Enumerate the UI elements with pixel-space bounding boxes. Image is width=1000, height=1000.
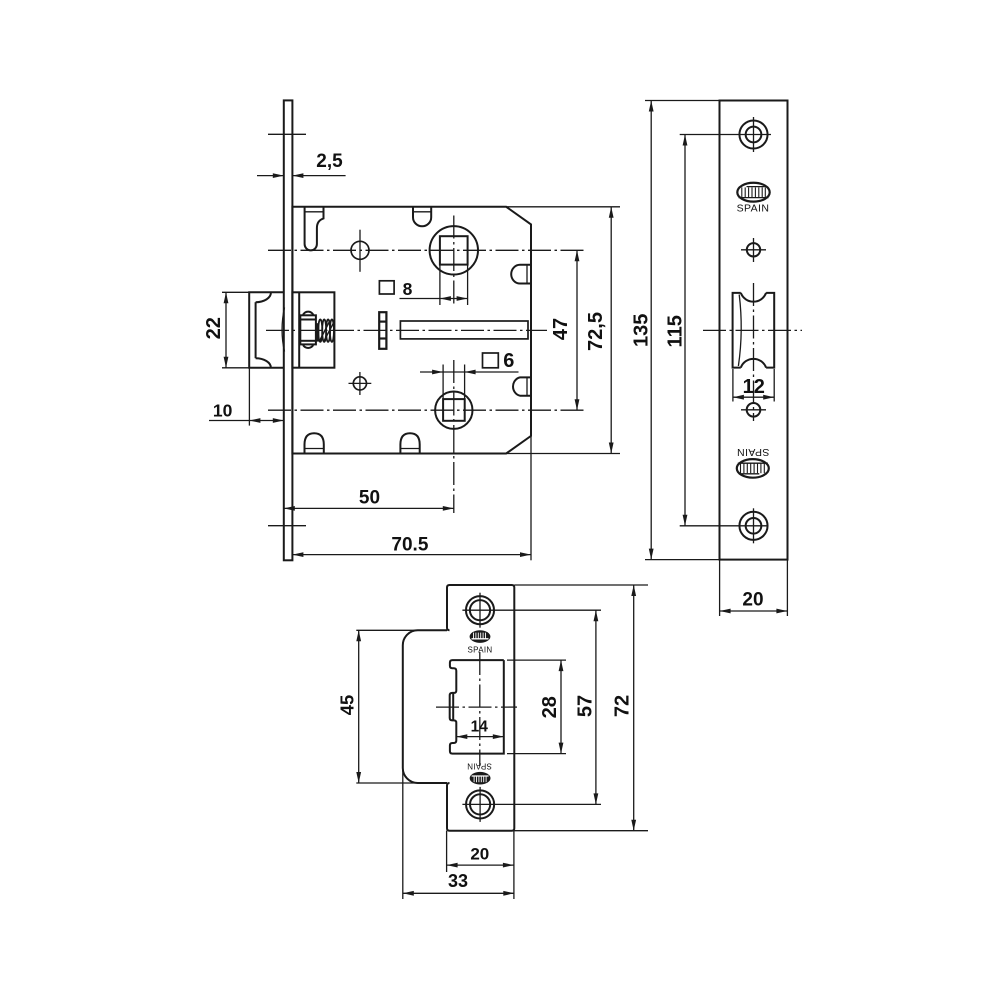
latch axis centerline (left view)	[266, 329, 547, 331]
spring retainer flanged piece	[300, 312, 316, 348]
bottom tab 1	[305, 433, 324, 453]
svg-text:2,5: 2,5	[316, 151, 343, 172]
latch axis centerline (right view)	[703, 329, 802, 331]
dimension 135 faceplate height	[631, 101, 720, 560]
small hole lower-left with crosshair	[349, 372, 372, 395]
spring seat dark tip	[316, 323, 319, 341]
strike bottom screw hole	[466, 787, 494, 822]
latch bolt bevel arc behind faceplate	[282, 308, 284, 352]
vertical centerline upper follower	[453, 216, 455, 308]
dimension 2,5 faceplate thickness	[257, 151, 346, 178]
dimension 50 backset	[284, 430, 454, 514]
dimension 14	[456, 719, 504, 740]
svg-text:SPAIN: SPAIN	[737, 446, 770, 458]
strike wing curved flange	[403, 630, 447, 783]
faceplate bar (side view, 2.5 thick)	[284, 100, 293, 560]
svg-text:6: 6	[503, 350, 514, 372]
tick mark on faceplate at bottom screw height	[268, 525, 306, 527]
svg-text:14: 14	[471, 719, 489, 736]
tick mark on faceplate at top screw height	[268, 133, 306, 135]
svg-text:SPAIN: SPAIN	[737, 202, 770, 214]
svg-text:20: 20	[742, 590, 763, 611]
strike latch cutout with lip	[450, 660, 504, 754]
strike amig logo top (solid)	[470, 630, 491, 643]
strike cutout horizontal centerline	[436, 706, 517, 708]
centerline through lower follower	[268, 409, 585, 411]
dimension 20 strike plate width	[447, 831, 514, 899]
svg-text:57: 57	[575, 695, 597, 717]
small hole upper-left with crosshair	[351, 230, 369, 272]
strike cutout vertical centerline	[479, 652, 481, 766]
latch housing inside body	[292, 292, 334, 367]
svg-text:12: 12	[743, 376, 765, 398]
svg-text:20: 20	[470, 845, 489, 864]
top screw hole	[739, 117, 767, 152]
right edge tab lower	[513, 377, 531, 395]
dimension 57 screw spacing strike	[462, 610, 601, 804]
strike plate outline	[447, 585, 514, 831]
lower follower: circle with 6mm square	[435, 392, 472, 429]
dimension 6 square follower	[420, 350, 519, 375]
latch head (bolt) left of faceplate	[249, 292, 284, 368]
dimension 10	[209, 368, 284, 426]
lock body outline with chamfered right corners	[292, 207, 531, 561]
dimension 47 follower spacing	[550, 250, 579, 410]
svg-text:70.5: 70.5	[391, 535, 428, 556]
amig logo (bottom, upside down outline)	[737, 459, 769, 478]
dimension 8 square follower	[379, 279, 467, 301]
bottom tab 2	[400, 433, 419, 453]
dimension 115 screw spacing	[664, 135, 771, 526]
svg-text:50: 50	[359, 487, 380, 508]
extension lines for 6 dim	[442, 365, 444, 400]
svg-text:72: 72	[612, 695, 634, 717]
coil spring	[318, 319, 334, 342]
centerline through upper follower	[268, 249, 585, 251]
dimension 28 cutout height	[507, 660, 566, 754]
dimension 70.5 total depth	[292, 535, 531, 558]
dimension 12 latch width	[733, 369, 774, 402]
svg-text:47: 47	[550, 318, 572, 340]
latch cutout in faceplate with waisted roller	[733, 293, 775, 368]
dimension 72 strike height	[514, 585, 648, 831]
right edge tab upper	[511, 265, 531, 284]
dimension 22 latch height	[203, 292, 249, 368]
svg-text:10: 10	[213, 401, 233, 421]
svg-text:135: 135	[631, 314, 653, 347]
pin / stop plate	[379, 312, 386, 349]
svg-text:45: 45	[336, 695, 357, 716]
dimension 45 wing height	[336, 630, 418, 783]
svg-text:8: 8	[403, 279, 413, 299]
svg-text:22: 22	[203, 317, 225, 339]
top dome tab on body	[413, 207, 431, 227]
vertical centerline through cutout	[753, 283, 755, 421]
upper follower: circle with 8mm square	[430, 226, 478, 274]
dimension 33 total width	[403, 770, 515, 899]
svg-text:115: 115	[664, 315, 686, 347]
svg-text:28: 28	[539, 696, 561, 718]
svg-text:33: 33	[448, 871, 468, 891]
lever slot in body	[400, 321, 528, 339]
extension lines for 8 dim	[439, 265, 441, 305]
small hole below latch cutout	[741, 403, 766, 417]
small hole above latch cutout	[741, 238, 766, 262]
strike amig logo bottom (solid, upside down)	[470, 772, 491, 785]
bottom screw hole	[739, 508, 767, 543]
svg-text:SPAIN: SPAIN	[467, 761, 492, 770]
dimension 20 faceplate width	[720, 560, 788, 616]
strike top screw hole	[466, 593, 494, 628]
dimension 72,5 body height	[507, 207, 620, 454]
body right edge extension line down to 70.5 dim	[530, 436, 532, 560]
amig logo (top, outline style)	[737, 183, 769, 202]
vertical centerline lower follower	[453, 360, 455, 430]
faceplate front view outline	[720, 101, 788, 560]
keyhole cutout top-left of body	[305, 207, 324, 251]
svg-text:72,5: 72,5	[585, 312, 607, 351]
